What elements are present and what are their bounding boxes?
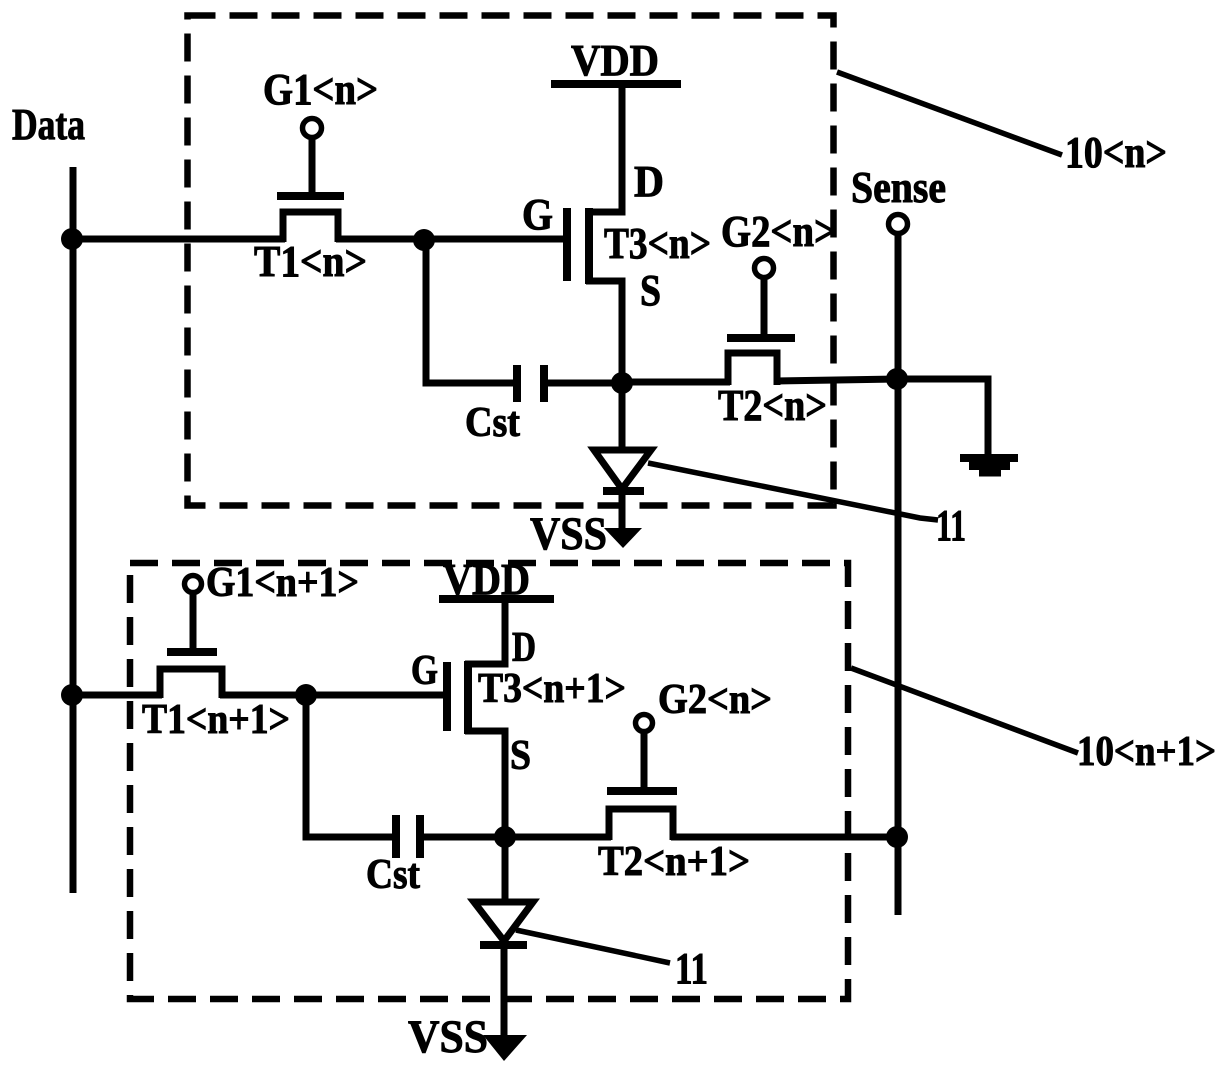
power VDD rail — [551, 80, 681, 88]
terminal G2<n> circle — [755, 259, 774, 278]
junction Sense row n — [886, 368, 908, 390]
dashed box 10<n> — [188, 16, 834, 506]
wire T2 gate stem — [761, 276, 768, 336]
svg-text:10<n+1>: 10<n+1> — [1077, 729, 1216, 775]
wire T1 to gate node — [336, 236, 564, 243]
svg-text:G1<n+1>: G1<n+1> — [206, 560, 359, 606]
capacitor Cst plate right — [540, 365, 548, 402]
ground VSS arrow circuit n — [604, 528, 642, 548]
dashed box 10<n+1> — [130, 563, 848, 999]
wire Data line vertical — [70, 167, 77, 893]
svg-text:Data: Data — [12, 100, 85, 149]
wire T1 gate stem n+1 — [190, 591, 197, 650]
junction on Data line row n — [61, 228, 83, 250]
wire Sense line vertical — [895, 234, 902, 915]
svg-text:VSS: VSS — [530, 508, 607, 560]
transistor T2<n+1> channel — [609, 809, 673, 840]
svg-text:VDD: VDD — [443, 555, 530, 604]
svg-text:G: G — [522, 190, 553, 239]
junction Sense row n+1 — [886, 826, 908, 848]
wire T2 gate stem n+1 — [641, 731, 648, 789]
svg-text:Cst: Cst — [366, 852, 420, 898]
svg-text:G2<n>: G2<n> — [721, 207, 836, 256]
terminal G1<n> circle — [303, 119, 322, 138]
wire Cst to source node — [546, 380, 624, 387]
leader line to 10<n> — [837, 72, 1062, 155]
svg-text:G2<n>: G2<n> — [658, 677, 772, 723]
transistor T3<n> channel bar — [585, 208, 593, 284]
capacitor Cst plate left — [513, 365, 521, 402]
svg-text:T2<n+1>: T2<n+1> — [598, 839, 750, 885]
leader line to 11 (circuit n) — [648, 463, 938, 520]
leader line to 10<n+1> — [851, 668, 1078, 753]
svg-text:D: D — [634, 157, 664, 206]
svg-text:VDD: VDD — [571, 36, 659, 85]
ground VSS arrow circuit n+1 — [483, 1035, 527, 1061]
transistor T3<n+1> channel bar — [464, 661, 472, 734]
transistor T1<n> gate bar — [277, 192, 344, 200]
transistor T3<n> gate bar — [563, 208, 571, 281]
wire to right ground — [897, 379, 988, 456]
power VDD rail n+1 — [439, 595, 554, 603]
junction on Data line row n+1 — [61, 684, 83, 706]
svg-text:T3<n>: T3<n> — [604, 219, 711, 268]
wire row n from Data to T1 — [73, 236, 285, 243]
svg-text:T1<n+1>: T1<n+1> — [142, 697, 290, 743]
terminal Sense circle — [889, 215, 908, 234]
svg-text:VSS: VSS — [408, 1011, 488, 1063]
wire row n+1 from Data to T1 — [73, 692, 162, 699]
junction gate node n — [413, 229, 435, 251]
svg-text:Cst: Cst — [465, 400, 520, 446]
wire T1 to gate node n+1 — [220, 692, 445, 699]
transistor T2<n+1> gate bar — [607, 787, 677, 795]
transistor T2<n> gate bar — [727, 334, 795, 342]
wire T2 to Sense line — [775, 379, 897, 381]
terminal G2<n> circle (row n+1) — [636, 715, 653, 732]
junction source node n — [611, 372, 633, 394]
wire T3 drain lead n+1 — [465, 602, 505, 664]
svg-text:D: D — [512, 625, 536, 671]
svg-text:Sense: Sense — [851, 163, 946, 212]
capacitor Cst plate left n+1 — [392, 815, 400, 858]
terminal G1<n+1> circle — [185, 576, 202, 593]
transistor T1<n+1> channel — [160, 669, 222, 698]
wire T2 to Sense line n+1 — [671, 834, 897, 841]
diode 11 (OLED) circuit n+1 — [502, 837, 509, 903]
ground symbol right — [960, 454, 1018, 462]
junction source node n+1 — [494, 826, 516, 848]
svg-text:G1<n>: G1<n> — [263, 65, 378, 114]
wire gate node down to Cst — [426, 240, 513, 383]
wire T1 gate stem — [309, 136, 316, 194]
svg-text:S: S — [640, 266, 661, 315]
svg-text:S: S — [510, 733, 531, 779]
transistor T2<n> channel — [728, 353, 777, 385]
svg-text:G: G — [411, 648, 438, 694]
wire gate node down to Cst n+1 — [306, 695, 392, 837]
svg-text:T1<n>: T1<n> — [254, 237, 367, 286]
svg-text:11: 11 — [675, 944, 708, 993]
wire T3 drain lead — [586, 86, 622, 212]
transistor T1<n> channel — [283, 212, 338, 242]
svg-text:10<n>: 10<n> — [1065, 128, 1167, 177]
transistor T3<n+1> gate bar — [443, 662, 451, 731]
wire source node to T2 n+1 — [505, 834, 611, 841]
wire T3 source lead n+1 — [465, 731, 505, 839]
svg-text:T3<n+1>: T3<n+1> — [478, 666, 626, 712]
capacitor Cst plate right n+1 — [416, 815, 424, 858]
diode 11 (OLED) circuit n — [619, 383, 626, 451]
junction gate node n+1 — [295, 684, 317, 706]
wire T3 source lead — [586, 281, 622, 385]
leader line to 11 (circuit n+1) — [516, 930, 670, 963]
wire Cst to source node n+1 — [422, 834, 507, 841]
svg-text:11: 11 — [936, 501, 966, 550]
transistor T1<n+1> gate bar — [167, 648, 217, 656]
svg-text:T2<n>: T2<n> — [718, 381, 827, 430]
wire source node to T2 — [622, 379, 730, 386]
